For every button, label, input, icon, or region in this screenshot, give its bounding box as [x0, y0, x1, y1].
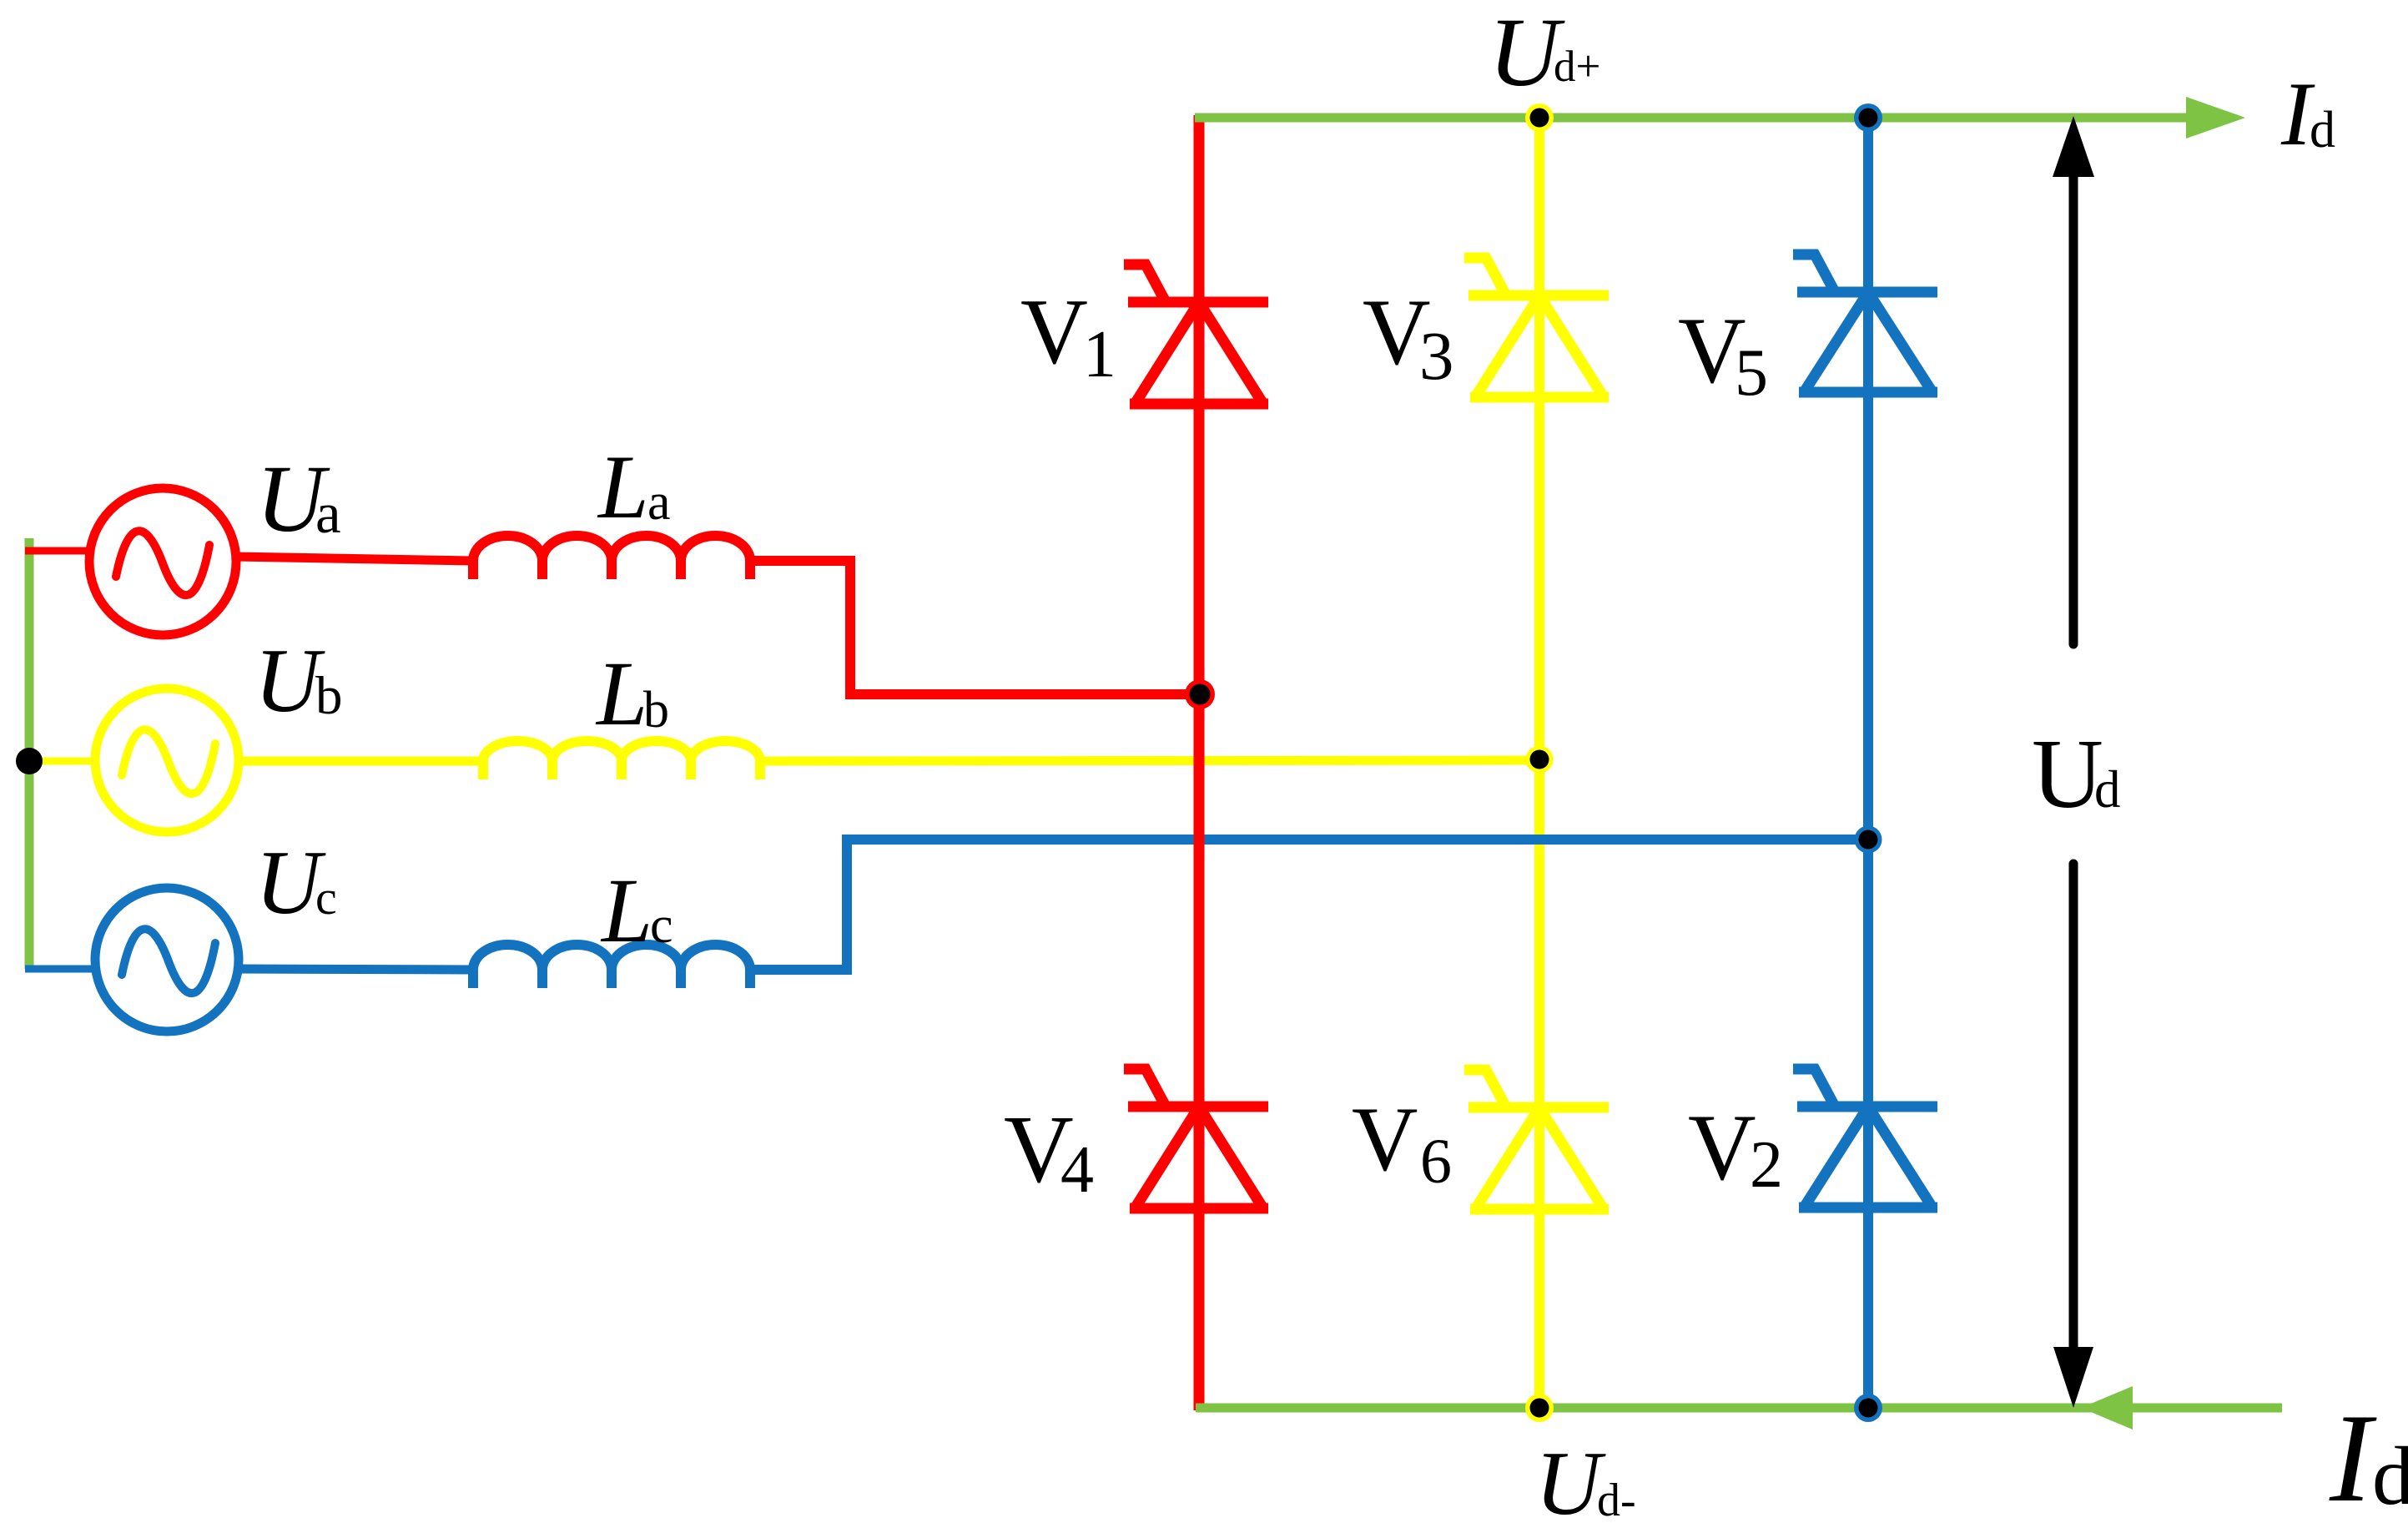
label Ub	[254, 630, 343, 731]
label Ud+ (top bus)	[1489, 0, 1600, 107]
svg-text:d+: d+	[1554, 43, 1600, 91]
label V1	[1020, 280, 1116, 391]
label V6	[1352, 1088, 1452, 1197]
label Id (top right)	[2280, 63, 2335, 164]
wire: phase C stub from neutral to source Uc	[25, 966, 97, 973]
svg-text:d: d	[2094, 760, 2121, 819]
wire: phase C from source to inductor Lc	[239, 969, 473, 970]
svg-text:b: b	[315, 666, 343, 726]
svg-text:4: 4	[1060, 1133, 1094, 1207]
thyristor V6 (yellow)	[1464, 1070, 1609, 1209]
svg-text:I: I	[2329, 1388, 2377, 1523]
wire: phase B stub from neutral to source Ub	[29, 758, 97, 765]
node B junction dot (yellow ring)	[1526, 746, 1554, 774]
thyristor V1 (red)	[1124, 265, 1268, 404]
wire: phase C step up to bridge node C	[750, 840, 1873, 970]
svg-text:a: a	[315, 482, 341, 545]
wire: phase B to bridge node B	[760, 760, 1539, 761]
wire: red bridge leg (V1/V4 branch)	[1194, 115, 1205, 1410]
svg-text:d: d	[2372, 1430, 2408, 1522]
svg-text:V: V	[1020, 280, 1088, 384]
wire: neutral vertical link (green)	[25, 538, 34, 969]
svg-text:3: 3	[1419, 317, 1454, 394]
node N junction dot (black) on neutral	[16, 748, 43, 774]
svg-text:L: L	[600, 860, 652, 961]
thyristor V3 (yellow)	[1464, 258, 1609, 397]
svg-text:2: 2	[1750, 1128, 1783, 1202]
svg-text:c: c	[650, 897, 673, 954]
label V5	[1678, 299, 1768, 410]
wire: blue bridge leg (V5/V2 branch)	[1863, 115, 1873, 1410]
wire: phase A step down to bridge node A	[750, 561, 1204, 694]
svg-text:a: a	[647, 474, 671, 531]
AC source Ua (red)	[89, 488, 236, 635]
AC source Ub (yellow)	[95, 688, 239, 832]
svg-text:V: V	[1352, 1088, 1418, 1190]
svg-text:c: c	[315, 870, 337, 925]
svg-text:5: 5	[1735, 336, 1768, 410]
svg-text:6: 6	[1420, 1127, 1452, 1197]
junction dot: blue leg on bottom bus	[1854, 1394, 1882, 1422]
junction dot: yellow leg on top bus	[1525, 103, 1554, 132]
AC source Uc (blue)	[95, 888, 239, 1031]
label Uc	[255, 832, 337, 933]
svg-text:V: V	[1688, 1096, 1756, 1200]
svg-text:d-: d-	[1597, 1475, 1636, 1523]
inductor La (red)	[473, 536, 750, 579]
label Lb	[595, 643, 669, 744]
label Id (bottom right)	[2329, 1388, 2408, 1523]
junction dot: blue leg on top bus	[1854, 103, 1882, 132]
svg-text:1: 1	[1083, 318, 1116, 391]
label V3	[1363, 280, 1454, 394]
svg-text:L: L	[597, 436, 649, 537]
wire: phase A stub from neutral to source Ua	[25, 547, 90, 555]
thyristor V2 (blue)	[1793, 1069, 1937, 1208]
inductor Lc (blue)	[473, 945, 750, 988]
label Ud (right side)	[2032, 719, 2121, 829]
svg-text:U: U	[2032, 719, 2103, 829]
node A junction dot (red ring)	[1185, 679, 1215, 709]
wire: yellow bridge leg (V3/V6 branch)	[1534, 118, 1544, 1408]
svg-text:L: L	[595, 643, 647, 744]
wire: phase B from source to inductor Lb	[239, 757, 483, 766]
wire: top DC bus Ud+ (green)	[1195, 97, 2245, 139]
thyristor V4 (red)	[1124, 1069, 1268, 1208]
label Lc	[600, 860, 673, 961]
label V4	[1004, 1097, 1094, 1207]
svg-text:b: b	[643, 682, 669, 739]
node C junction dot (blue ring)	[1855, 826, 1882, 854]
label Ud- (bottom bus)	[1535, 1433, 1636, 1523]
thyristor V5 (blue)	[1793, 255, 1937, 392]
label Ua	[256, 446, 341, 552]
wire: bottom DC bus Ud- (green)	[1196, 1386, 2282, 1430]
svg-text:U: U	[1535, 1433, 1606, 1523]
label V2	[1688, 1096, 1783, 1202]
wire: phase A from source to inductor La	[234, 557, 473, 561]
junction dot: yellow leg on bottom bus	[1525, 1394, 1554, 1422]
Ud measurement arrow (black, double-headed)	[2053, 116, 2094, 1408]
label La	[597, 436, 671, 537]
svg-text:d: d	[2310, 102, 2335, 159]
inductor Lb (yellow)	[483, 741, 760, 779]
